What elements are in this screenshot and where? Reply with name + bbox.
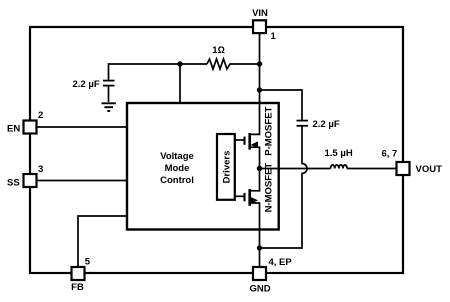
node C	[257, 87, 262, 92]
pad SS pin 3	[24, 174, 37, 187]
wire N drain to SW node	[250, 169, 260, 191]
block Voltage Mode Control	[127, 103, 279, 230]
capacitor 2.2µF input: plates	[103, 81, 115, 86]
inductor 1.5µH	[331, 165, 347, 169]
svg-text:VOUT: VOUT	[416, 164, 443, 175]
svg-text:Mode: Mode	[165, 163, 190, 174]
wire cap bottom lead	[108, 86, 110, 102]
label Voltage Mode Control	[160, 151, 194, 186]
pad VIN pin 1	[253, 20, 266, 33]
wire N gate lead	[235, 195, 244, 197]
wire node A to node C	[259, 64, 261, 90]
node D	[257, 245, 262, 250]
svg-text:6, 7: 6, 7	[382, 149, 398, 160]
pad GND pin 4, EP	[253, 267, 266, 280]
block Drivers	[217, 134, 235, 200]
svg-text:Control: Control	[160, 175, 194, 186]
svg-text:Voltage: Voltage	[160, 151, 194, 162]
svg-text:5: 5	[85, 257, 91, 268]
wire node B to control block	[179, 64, 181, 103]
pad FB pin 5	[72, 267, 85, 280]
wire inductor to VOUT pad	[347, 168, 396, 170]
capacitor 2.2µF output: plates	[297, 121, 309, 126]
wire P gate lead	[235, 139, 244, 141]
wire SS to control block	[37, 180, 128, 182]
svg-text:1Ω: 1Ω	[212, 45, 225, 56]
transistor N-MOSFET	[245, 189, 259, 206]
outer circuit boundary	[30, 27, 403, 273]
svg-text:FB: FB	[71, 282, 84, 293]
node SW	[257, 166, 262, 171]
wire FB to control block	[78, 216, 127, 267]
wire N source to node D	[250, 203, 260, 248]
node A	[257, 61, 262, 66]
wire node C to output cap top	[260, 90, 303, 120]
svg-text:2: 2	[38, 110, 43, 121]
pad VOUT pins 6,7	[397, 162, 410, 175]
resistor 1Ω	[207, 59, 260, 69]
svg-text:1: 1	[271, 31, 277, 42]
wire SW to inductor	[260, 168, 331, 170]
svg-text:2.2 µF: 2.2 µF	[73, 79, 100, 90]
svg-text:EN: EN	[7, 124, 20, 135]
svg-text:Drivers: Drivers	[221, 151, 232, 184]
svg-text:VIN: VIN	[252, 8, 268, 19]
svg-text:3: 3	[38, 164, 43, 175]
wire P source to SW node	[250, 147, 260, 168]
svg-text:4, EP: 4, EP	[269, 257, 293, 268]
svg-text:P-MOSFET: P-MOSFET	[263, 106, 274, 155]
wire VIN stub to node A	[259, 33, 261, 64]
svg-text:GND: GND	[249, 284, 270, 295]
transistor P-MOSFET	[245, 133, 259, 150]
svg-text:N-MOSFET: N-MOSFET	[263, 163, 274, 213]
svg-text:SS: SS	[7, 178, 20, 189]
wire node D to GND pad	[259, 248, 261, 267]
wire P drain column	[250, 90, 260, 134]
ground	[102, 103, 116, 111]
node B	[177, 61, 182, 66]
pad EN pin 2	[24, 121, 37, 134]
wire input rail (cap corner to resistor)	[109, 64, 208, 80]
wire EN to control block	[37, 126, 128, 128]
wire output cap bottom with hop over SW wire	[260, 126, 308, 248]
svg-text:2.2 µF: 2.2 µF	[313, 119, 340, 130]
svg-text:1.5 µH: 1.5 µH	[325, 148, 353, 159]
